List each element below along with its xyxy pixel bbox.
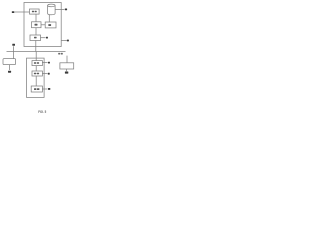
svg-text:FIG. 5: FIG. 5 — [38, 110, 46, 114]
